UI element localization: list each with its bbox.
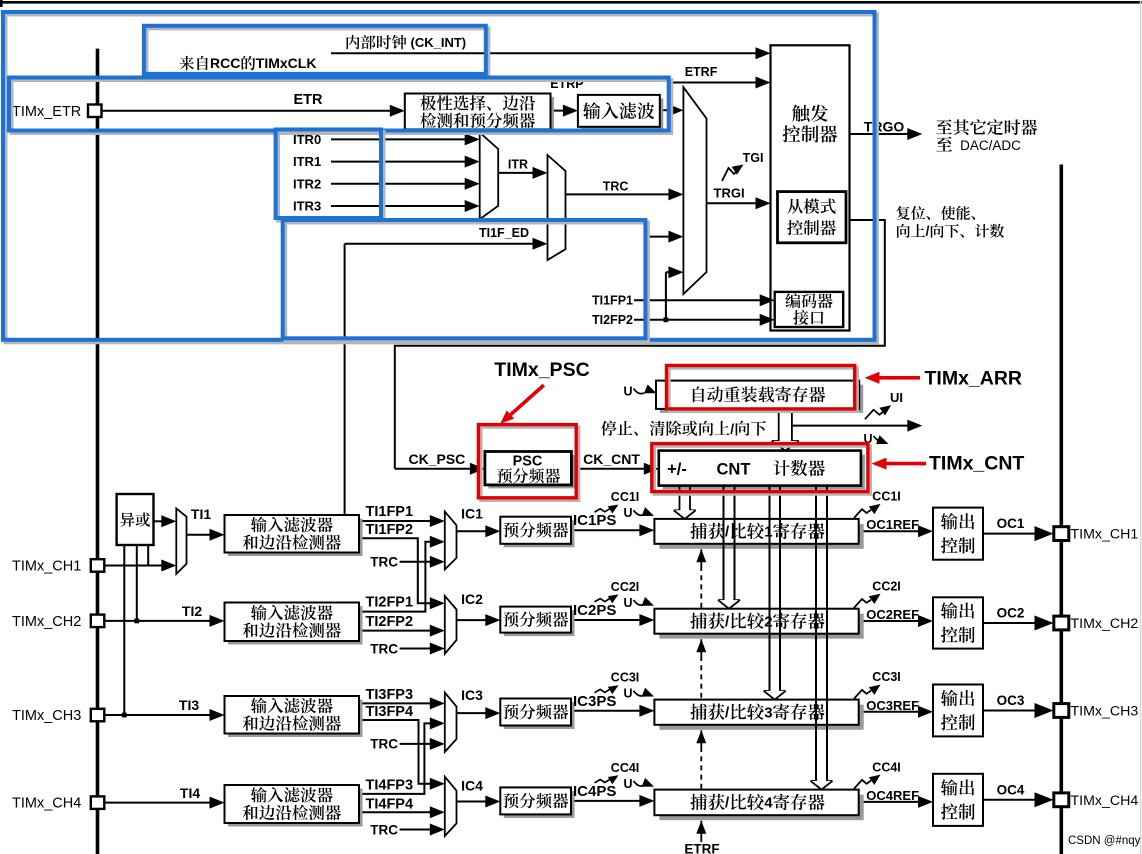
- label IC1: [461, 506, 483, 522]
- wire IC4PS: [571, 800, 644, 802]
- wire TI2FP1 cross: [359, 542, 434, 612]
- wire IC4 out: [457, 801, 491, 803]
- arrow TI1F_ED-M2: [533, 238, 548, 250]
- label input filter: [583, 102, 654, 119]
- arrow enc2: [760, 314, 775, 326]
- annotation TIMx_CNT: [872, 452, 1025, 474]
- wire OC3: [983, 710, 1038, 712]
- svg-text:OC1: OC1: [997, 516, 1025, 531]
- label IC4PS: [573, 783, 616, 800]
- label TI2FP2 enc: [592, 313, 633, 327]
- block polarity/edge-detector/prescaler: [405, 94, 554, 133]
- label TIMx_CH3 right: [1071, 704, 1139, 720]
- wire TI4: [104, 802, 214, 804]
- svg-text:TIMx_CNT: TIMx_CNT: [929, 452, 1024, 474]
- wire TRC out: [566, 193, 673, 195]
- label XOR: [120, 512, 150, 526]
- arrow IC3PS: [639, 705, 654, 717]
- label polarity box text: [420, 95, 535, 128]
- block input filter & edge detector ch1: [225, 515, 363, 556]
- label U ch3: [624, 687, 655, 701]
- label ITR2: [293, 176, 321, 191]
- arrow ITR2: [465, 178, 480, 190]
- arrow OC2REF: [918, 615, 933, 627]
- block capture/compare register 4: [654, 790, 863, 821]
- wire ITR2: [331, 183, 468, 185]
- svg-text:UI: UI: [890, 390, 903, 405]
- svg-text:+/-: +/-: [667, 460, 687, 478]
- wire UEV out: [792, 425, 910, 427]
- block slave mode controller: [778, 192, 847, 243]
- arrow OC3REF: [918, 706, 933, 718]
- arrow ETR: [390, 105, 405, 117]
- arrow IC2PS: [639, 614, 654, 626]
- arrow OC4REF: [918, 796, 933, 808]
- wire ARR down-arrow: [772, 409, 799, 451]
- svg-text:CC2I: CC2I: [611, 580, 639, 594]
- wire CK_INT: [331, 52, 762, 54]
- svg-text:TI1: TI1: [191, 506, 211, 522]
- block output control ch1: [933, 508, 983, 560]
- arrow IC1PS: [639, 524, 654, 536]
- label filter ch4: [243, 787, 341, 820]
- block input filter & edge detector ch2: [225, 603, 363, 645]
- label CC reg 4: [690, 794, 824, 812]
- arrow IC2 in2: [430, 625, 445, 637]
- svg-text:TI1FP2: TI1FP2: [366, 522, 414, 538]
- arrow IC2 out: [485, 614, 500, 626]
- label TI4FP3: [366, 777, 414, 793]
- wire TI2: [104, 619, 214, 624]
- top border line: [0, 0, 1142, 7]
- svg-text:TRC: TRC: [370, 641, 398, 656]
- svg-text:CNT: CNT: [717, 460, 751, 478]
- svg-text:ETRF: ETRF: [684, 841, 719, 854]
- wire OC4: [983, 799, 1038, 801]
- label ETRP: [550, 77, 583, 91]
- label prescaler ch1: [503, 522, 568, 538]
- svg-text:CC4I: CC4I: [872, 760, 900, 774]
- label CK_PSC: [409, 451, 466, 467]
- svg-text:CK_PSC: CK_PSC: [409, 451, 466, 467]
- label OC2: [997, 606, 1025, 621]
- wire TI1 from pad: [104, 565, 166, 567]
- block CNT counter: [659, 451, 865, 490]
- label TI1: [191, 506, 211, 522]
- svg-text:OC2REF: OC2REF: [866, 607, 919, 622]
- label TI3FP3: [366, 687, 414, 703]
- wire IC1 out: [457, 530, 491, 532]
- wire TI3FP3: [359, 702, 434, 704]
- arrow TRGO: [907, 128, 922, 140]
- label TRC y829.5: [370, 822, 398, 837]
- label ITR1: [293, 154, 321, 169]
- annotation TIMx_ARR: [865, 367, 1023, 389]
- arrow IC4 in1: [430, 778, 445, 790]
- arrow IC3 in2: [430, 717, 445, 729]
- arrow IC1 in2: [430, 536, 445, 548]
- svg-text:OC3: OC3: [997, 693, 1025, 708]
- wire IC3PS: [571, 710, 644, 712]
- arrow OC4: [1035, 792, 1054, 807]
- label U cnt: [864, 432, 889, 446]
- label output control 1: [941, 513, 975, 554]
- label ITR0: [293, 132, 321, 147]
- block XOR: [117, 494, 154, 545]
- svg-text:CSDN @#nqy: CSDN @#nqy: [1068, 835, 1141, 847]
- label TIMx_ETR: [12, 104, 81, 120]
- block capture/compare register 2: [654, 609, 863, 639]
- label CC reg 3: [690, 703, 824, 721]
- label U ch4: [624, 777, 655, 791]
- wire CNT-CC pair1: [674, 486, 696, 519]
- wire TI1F_ED: [345, 244, 536, 515]
- label OC4REF: [866, 788, 919, 803]
- wire XOR out: [154, 520, 167, 522]
- svg-text:U: U: [624, 596, 633, 610]
- wire polarity-to-filter: [551, 110, 569, 112]
- svg-text:U: U: [624, 506, 633, 520]
- wire OC2: [983, 622, 1038, 624]
- label CC reg 1: [690, 523, 824, 541]
- svg-text:TI2: TI2: [182, 603, 202, 619]
- label TGI: [743, 151, 764, 165]
- block ARR auto-reload register: [656, 381, 863, 413]
- wire ITR3: [331, 205, 468, 207]
- arrow XOR-M0: [161, 515, 176, 527]
- label ITR3: [293, 199, 321, 214]
- arrow ITR-M2: [533, 167, 548, 179]
- svg-text:CC2I: CC2I: [872, 579, 900, 593]
- svg-text:TI4: TI4: [180, 785, 200, 801]
- svg-text:TI4FP3: TI4FP3: [366, 777, 414, 793]
- svg-text:4: 4: [764, 795, 773, 812]
- wire IC2PS: [571, 619, 644, 621]
- label encoder interface: [785, 293, 832, 325]
- svg-text:TIMx_CH2: TIMx_CH2: [1071, 616, 1139, 632]
- pad TIMx_CH2 left: [91, 615, 105, 628]
- svg-text:OC4REF: OC4REF: [866, 788, 919, 803]
- label output control 4: [941, 779, 975, 820]
- wire IC2 out: [457, 619, 491, 621]
- pad TIMx_CH3 left: [91, 709, 105, 722]
- svg-text:CC1I: CC1I: [872, 490, 900, 504]
- label PSC: [513, 454, 543, 470]
- arrow IC4 in2: [430, 806, 445, 818]
- arrow TRGI: [756, 197, 771, 209]
- wire TRGO: [850, 133, 911, 135]
- arrow IC4PS: [639, 795, 654, 807]
- svg-text:TRC: TRC: [370, 822, 398, 837]
- label ARR: [693, 386, 825, 402]
- svg-text:IC2PS: IC2PS: [573, 602, 616, 619]
- annotation blue outer box: [3, 12, 877, 342]
- watermark CSDN: [1068, 835, 1141, 847]
- svg-text:TIMx_CH4: TIMx_CH4: [1071, 793, 1139, 809]
- svg-text:CC3I: CC3I: [872, 670, 900, 684]
- label ETR: [294, 92, 324, 108]
- svg-text:TRGI: TRGI: [714, 185, 745, 200]
- label prescaler ch3: [503, 704, 568, 720]
- label TI2FP1: [366, 595, 414, 611]
- svg-text:TIMx_PSC: TIMx_PSC: [494, 359, 589, 381]
- label updown count: [897, 224, 1004, 239]
- label internal clock: [347, 35, 467, 50]
- wire IC3 out: [457, 712, 491, 714]
- left bus line: [96, 49, 100, 854]
- label TI1FP1: [366, 504, 414, 520]
- svg-text:U: U: [624, 777, 633, 791]
- svg-text:TIMx_CH4: TIMx_CH4: [12, 796, 81, 812]
- arrow pad-M0: [161, 560, 176, 572]
- svg-text:/: /: [730, 420, 734, 436]
- annotation red PSC box: [478, 425, 578, 501]
- svg-text:OC1REF: OC1REF: [866, 517, 919, 532]
- label TI3: [179, 697, 199, 713]
- svg-text:TGI: TGI: [743, 151, 764, 165]
- arrow IC4 in3: [430, 824, 445, 836]
- label TRC y648.5: [370, 641, 398, 656]
- block output control ch3: [933, 685, 983, 737]
- svg-text:IC2: IC2: [461, 591, 483, 607]
- label CK_CNT: [583, 451, 640, 467]
- label prescaler ch2: [503, 611, 568, 627]
- arrow IC2 in3: [430, 643, 445, 655]
- label IC4: [461, 777, 483, 793]
- wire ETR: [101, 110, 393, 112]
- annotation TIMx_PSC: [494, 359, 589, 424]
- svg-text:TIMx_ETR: TIMx_ETR: [12, 104, 81, 120]
- pad TIMx_CH2 right: [1054, 616, 1069, 630]
- arrow ITR3: [465, 200, 480, 212]
- svg-text:TI3FP4: TI3FP4: [366, 704, 414, 720]
- annotation blue CK_INT box: [144, 26, 488, 77]
- label TI2: [182, 603, 202, 619]
- label OC3: [997, 693, 1025, 708]
- label U arr: [624, 384, 657, 398]
- svg-text:IC4PS: IC4PS: [573, 783, 616, 800]
- label OC1: [997, 516, 1025, 531]
- wire TRC ch4: [400, 829, 434, 831]
- block encoder interface: [775, 292, 844, 327]
- svg-text:U: U: [624, 687, 633, 701]
- arrow ETRF mux: [668, 104, 683, 116]
- mux IC1 select: [445, 512, 457, 570]
- arrow IC1 out: [485, 525, 500, 537]
- svg-text:ETR: ETR: [294, 92, 324, 108]
- svg-text:CK_CNT: CK_CNT: [583, 451, 640, 467]
- wire CNT-CC pair2: [718, 486, 740, 609]
- label OC4: [997, 782, 1025, 797]
- annotation red CNT box: [652, 444, 871, 495]
- block PSC prescaler: [485, 452, 575, 489]
- label TIMx_CH2 right: [1071, 616, 1139, 632]
- mux IC2 select: [445, 596, 457, 654]
- label CC4I right: [854, 760, 901, 788]
- label prescaler ch4: [503, 793, 568, 809]
- label TI1FP1 enc: [592, 294, 633, 308]
- arrow OC2: [1035, 616, 1054, 631]
- svg-text:TIMx_CH1: TIMx_CH1: [12, 559, 81, 575]
- label U ch1: [624, 506, 655, 520]
- label PSC prescaler: [497, 468, 560, 483]
- svg-text:IC3PS: IC3PS: [573, 693, 616, 710]
- label UI zigzag: [865, 405, 891, 419]
- label CC2I left: [595, 580, 640, 603]
- arrow IC2 in1: [430, 597, 445, 609]
- label U ch2: [624, 596, 655, 610]
- right edge line: [1140, 0, 1142, 854]
- mux M1 ITR select: [480, 133, 499, 220]
- label TI4: [180, 785, 200, 801]
- svg-text:TI3: TI3: [179, 697, 199, 713]
- block output control ch2: [933, 597, 983, 648]
- label ETRF: [685, 65, 718, 79]
- svg-text:3: 3: [764, 704, 772, 721]
- svg-text:TI1FP1: TI1FP1: [366, 504, 414, 520]
- label IC2PS: [573, 602, 616, 619]
- wire CNT-CC pair3: [764, 486, 786, 700]
- wire mux input TI2FP2 up: [664, 272, 673, 322]
- svg-text:CC3I: CC3I: [611, 671, 639, 685]
- svg-text:OC3REF: OC3REF: [866, 698, 919, 713]
- arrow CK_CNT: [644, 463, 659, 475]
- block prescaler ch2: [500, 607, 574, 637]
- svg-text:TIMx_ARR: TIMx_ARR: [925, 367, 1023, 389]
- arrow IC3 in3: [430, 738, 445, 750]
- label output control 2: [941, 602, 975, 643]
- wire TRC ch3: [400, 743, 434, 745]
- wire ITR0: [331, 138, 468, 140]
- arrow IC4 out: [485, 796, 500, 808]
- svg-text:TI2FP1: TI2FP1: [366, 595, 414, 611]
- svg-text:1: 1: [764, 524, 772, 541]
- label filter ch3: [243, 698, 341, 731]
- wire TI1FP1: [359, 520, 434, 522]
- wire dashed capture line: [696, 549, 706, 842]
- arrow CK_PSC: [470, 463, 485, 475]
- pad TIMx_CH4 right: [1054, 793, 1069, 807]
- wire TI1FP1 to encoder: [634, 299, 764, 301]
- label reset enable: [896, 206, 975, 220]
- block input filter & edge detector ch3: [225, 696, 363, 737]
- wire XOR inputs: [124, 546, 148, 715]
- svg-text:ITR: ITR: [508, 157, 528, 171]
- svg-text:2: 2: [764, 613, 772, 630]
- label TIMxCLK from RCC: [179, 55, 316, 71]
- svg-text:TI2FP2: TI2FP2: [366, 614, 414, 630]
- block trigger controller U1: [771, 45, 850, 330]
- label OC3REF: [866, 698, 919, 713]
- arrow TI3: [210, 709, 225, 721]
- arrow ITR1: [465, 156, 480, 168]
- label CC1I left: [595, 490, 640, 513]
- block output control ch4: [933, 774, 983, 826]
- annotation blue ETR box: [9, 78, 671, 134]
- label IC3: [461, 687, 483, 703]
- arrow IC3 out: [485, 707, 500, 719]
- label IC1PS: [573, 512, 616, 529]
- label TIMx_CH2 left: [12, 614, 81, 630]
- svg-text:TI1F_ED: TI1F_ED: [479, 226, 529, 240]
- label OC2REF: [866, 607, 919, 622]
- wire slave mode out: [395, 220, 885, 469]
- wire TI3: [104, 713, 214, 718]
- wire TI4FP3 cross: [359, 723, 434, 794]
- arrow M3-in3: [668, 231, 683, 243]
- mux IC4 select: [445, 777, 457, 836]
- label CNT text: [667, 460, 825, 478]
- svg-text:OC2: OC2: [997, 606, 1025, 621]
- pad TIMx_ETR: [88, 105, 102, 118]
- svg-text:CC4I: CC4I: [611, 761, 639, 775]
- arrow UEV: [907, 420, 922, 432]
- arrow enc1: [760, 294, 775, 306]
- label trigger controller: [783, 105, 838, 143]
- right bus line: [1060, 165, 1064, 854]
- block prescaler ch1: [500, 517, 574, 548]
- arrow TI2: [210, 615, 225, 627]
- arrow TI4: [210, 797, 225, 809]
- wire TI2FP2 to encoder: [634, 319, 764, 321]
- wire TRC ch1: [400, 561, 434, 563]
- wire ITR1: [331, 161, 468, 163]
- arrow OC1REF: [918, 525, 933, 537]
- label CC4I left: [595, 761, 640, 784]
- svg-text:TIMx_CH3: TIMx_CH3: [1071, 704, 1139, 720]
- label TRGI: [714, 185, 745, 200]
- svg-text:PSC: PSC: [513, 454, 543, 470]
- label slave mode controller: [787, 198, 836, 235]
- label ETRF bottom: [684, 841, 719, 854]
- label CC reg 2: [690, 612, 824, 630]
- label TIMx_CH4 left: [12, 796, 81, 812]
- svg-text:IC1PS: IC1PS: [573, 512, 616, 529]
- arrow to input-filter: [563, 105, 578, 117]
- svg-text:/: /: [926, 224, 930, 239]
- label output control 3: [941, 690, 975, 731]
- arrow OC1: [1035, 526, 1054, 541]
- block capture/compare register 1: [654, 519, 863, 549]
- pad TIMx_CH1 right: [1054, 527, 1069, 541]
- wire TI2FP2: [359, 630, 434, 632]
- wire CK_CNT: [571, 468, 648, 470]
- svg-text:TRC: TRC: [370, 555, 398, 570]
- wire TI3FP4 cross: [359, 720, 434, 784]
- label TI2FP2: [366, 614, 414, 630]
- label TI1FP2: [366, 522, 414, 538]
- wire OC3REF: [859, 711, 922, 713]
- label TIMx_CH1 left: [12, 559, 81, 575]
- wire OC2REF: [859, 620, 922, 622]
- svg-text:TRC: TRC: [603, 179, 629, 193]
- label CC3I left: [595, 671, 640, 694]
- svg-text:IC3: IC3: [461, 687, 483, 703]
- svg-text:TIMxCLK: TIMxCLK: [256, 55, 317, 71]
- pad TIMx_CH4 left: [91, 796, 105, 809]
- label CC2I right: [854, 579, 901, 607]
- annotation blue ITR box: [276, 130, 384, 221]
- arrow TI1: [210, 529, 225, 541]
- arrow TRC-M3: [668, 188, 683, 200]
- block input filter & edge detector ch4: [225, 785, 363, 827]
- wire ITR: [498, 172, 536, 174]
- svg-text:TRGO: TRGO: [864, 119, 905, 135]
- label TI1F_ED: [479, 226, 529, 240]
- label to DAC/ADC: [936, 137, 1021, 153]
- label IC2: [461, 591, 483, 607]
- label TI3FP4: [366, 704, 414, 720]
